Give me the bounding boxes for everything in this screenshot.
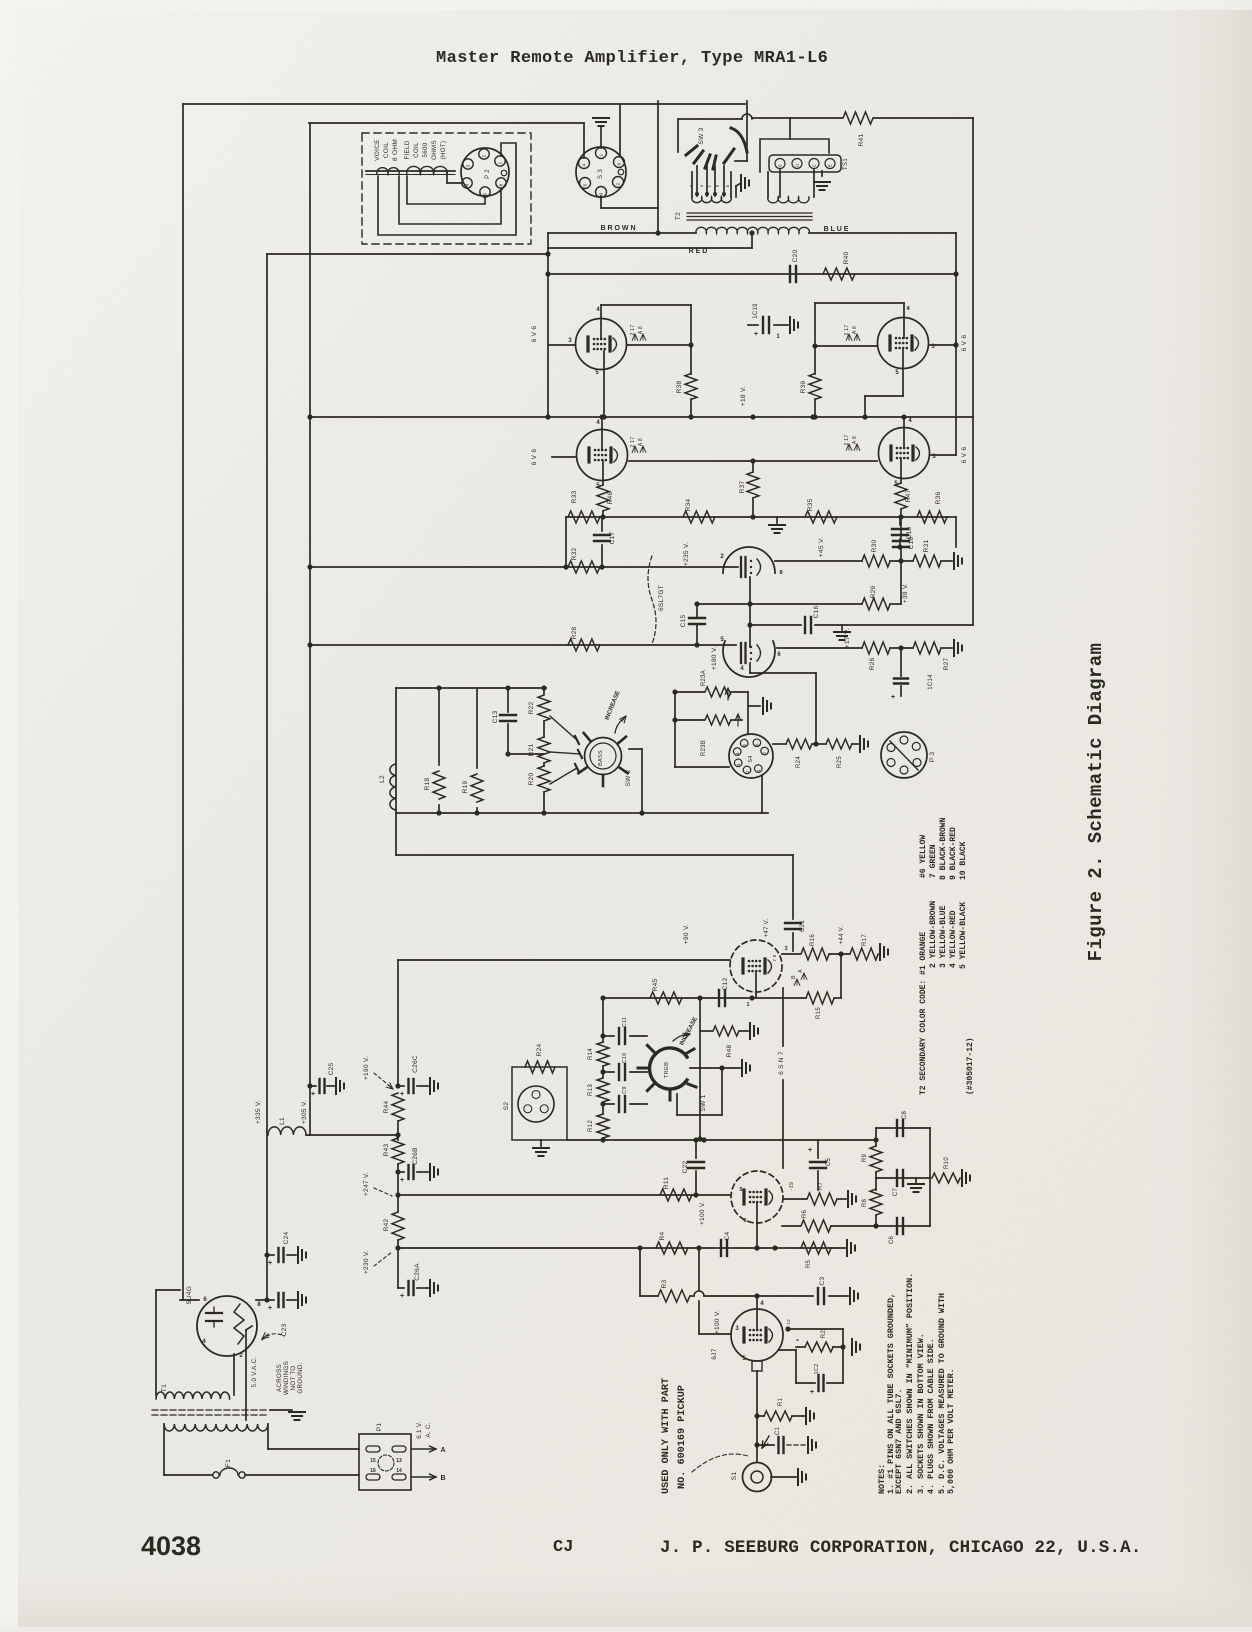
- svg-text:+: +: [400, 1091, 404, 1098]
- svg-text:TS1: TS1: [843, 158, 849, 170]
- svg-text:SW 2: SW 2: [625, 769, 632, 786]
- svg-text:R35: R35: [807, 499, 814, 512]
- svg-text:2: 2: [482, 154, 488, 157]
- svg-text:8: 8: [779, 570, 782, 576]
- svg-text:5: 5: [725, 184, 730, 187]
- svg-text:2: 2: [616, 182, 622, 185]
- svg-text:R13: R13: [588, 1084, 594, 1096]
- svg-text:R9: R9: [862, 1154, 868, 1163]
- svg-text:3 YELLOW-BLUE: 3 YELLOW-BLUE: [939, 905, 948, 968]
- svg-text:+: +: [810, 1389, 814, 1396]
- svg-text:R2: R2: [821, 1330, 827, 1339]
- svg-text:R46: R46: [607, 492, 614, 505]
- svg-text:4: 4: [465, 183, 471, 186]
- svg-text:C18: C18: [908, 537, 915, 550]
- svg-text:R29: R29: [870, 586, 877, 599]
- svg-text:R7: R7: [818, 1182, 824, 1191]
- svg-text:TREB: TREB: [664, 1062, 670, 1079]
- svg-text:R20: R20: [528, 773, 535, 786]
- svg-text:FIELD: FIELD: [404, 140, 411, 159]
- svg-text:3. SOCKETS SHOWN IN BOTTOM VIE: 3. SOCKETS SHOWN IN BOTTOM VIEW.: [916, 1333, 926, 1494]
- svg-text:A 8: A 8: [852, 326, 858, 334]
- svg-text:1C2: 1C2: [814, 1364, 820, 1375]
- svg-text:R39: R39: [800, 381, 807, 394]
- svg-text:C4: C4: [724, 1231, 731, 1240]
- svg-text:+39 V.: +39 V.: [902, 583, 909, 603]
- svg-text:C22: C22: [682, 1161, 689, 1174]
- svg-text:R47: R47: [905, 490, 912, 503]
- svg-text:R32: R32: [571, 548, 578, 561]
- svg-text:+230 V.: +230 V.: [363, 1250, 370, 1274]
- svg-text:1: 1: [746, 1002, 749, 1008]
- svg-text:C1: C1: [775, 1427, 781, 1436]
- svg-text:5 YELLOW-BLACK: 5 YELLOW-BLACK: [959, 902, 968, 969]
- svg-text:7 GREEN: 7 GREEN: [929, 844, 938, 878]
- svg-text:1: 1: [707, 184, 712, 187]
- svg-text:-19: -19: [789, 1182, 795, 1190]
- svg-text:2 YELLOW-BROWN: 2 YELLOW-BROWN: [929, 901, 938, 968]
- svg-text:CJ: CJ: [553, 1538, 573, 1557]
- svg-text:1: 1: [756, 769, 762, 772]
- svg-text:USED ONLY WITH PART: USED ONLY WITH PART: [661, 1378, 672, 1494]
- svg-text:C11: C11: [622, 1017, 628, 1028]
- svg-text:1: 1: [599, 153, 605, 156]
- svg-text:13: 13: [396, 1458, 402, 1464]
- svg-text:3: 3: [736, 763, 742, 766]
- svg-text:4: 4: [735, 752, 741, 755]
- svg-text:R21: R21: [528, 744, 535, 757]
- svg-text:15: 15: [370, 1458, 376, 1464]
- svg-text:A 8: A 8: [852, 436, 858, 444]
- svg-text:A 8: A 8: [638, 438, 644, 446]
- svg-text:8 OHM: 8 OHM: [392, 139, 399, 161]
- svg-text:T1: T1: [161, 1384, 168, 1392]
- svg-text:2. ALL SWITCHES SHOWN IN “MINI: 2. ALL SWITCHES SHOWN IN “MINIMUM” POSIT…: [905, 1273, 915, 1494]
- svg-text:6.1 V.: 6.1 V.: [416, 1421, 423, 1438]
- svg-text:T2: T2: [675, 212, 682, 220]
- svg-text:+18 V.: +18 V.: [740, 386, 747, 406]
- svg-text:B: B: [791, 975, 797, 979]
- svg-text:R18: R18: [424, 778, 431, 791]
- svg-text:5: 5: [742, 744, 748, 747]
- svg-text:+47 V.: +47 V.: [764, 919, 770, 938]
- svg-text:C20: C20: [792, 250, 799, 263]
- svg-text:A: A: [798, 969, 804, 973]
- svg-text:P1: P1: [376, 1423, 383, 1432]
- svg-text:R45: R45: [652, 979, 659, 992]
- svg-text:A. C.: A. C.: [425, 1422, 432, 1437]
- svg-text:R36: R36: [935, 492, 942, 505]
- svg-text:C12: C12: [722, 978, 729, 991]
- svg-text:B L U E: B L U E: [824, 226, 849, 233]
- svg-text:R27: R27: [943, 658, 950, 671]
- svg-text:R23B: R23B: [701, 740, 707, 756]
- svg-text:R25: R25: [837, 756, 843, 768]
- svg-text:+305 V.: +305 V.: [301, 1100, 308, 1124]
- svg-text:P 2: P 2: [485, 169, 491, 179]
- svg-text:SW 1: SW 1: [700, 1094, 707, 1111]
- svg-text:+: +: [268, 1260, 272, 1267]
- svg-text:R11: R11: [663, 1177, 670, 1189]
- svg-text:J. P. SEEBURG CORPORATION, CHI: J. P. SEEBURG CORPORATION, CHICAGO 22, U…: [660, 1538, 1142, 1558]
- svg-text:C3: C3: [819, 1276, 826, 1285]
- svg-text:7 8: 7 8: [772, 954, 777, 961]
- svg-text:C15: C15: [680, 615, 687, 628]
- svg-text:C16: C16: [813, 606, 820, 619]
- svg-text:6: 6: [743, 1218, 746, 1224]
- svg-text:R24: R24: [536, 1044, 543, 1057]
- svg-text:C13: C13: [492, 711, 499, 724]
- svg-text:7: 7: [762, 752, 768, 755]
- svg-text:C26B: C26B: [412, 1147, 419, 1164]
- svg-text:C26A: C26A: [414, 1263, 421, 1281]
- svg-text:+90 V.: +90 V.: [683, 924, 690, 944]
- svg-text:R37: R37: [739, 481, 746, 494]
- svg-text:5600: 5600: [422, 142, 429, 157]
- svg-text:S2: S2: [503, 1102, 510, 1111]
- svg-text:NO. 600169 PICKUP: NO. 600169 PICKUP: [677, 1385, 688, 1489]
- svg-text:R4: R4: [659, 1231, 666, 1240]
- svg-text:#6 YELLOW: #6 YELLOW: [919, 835, 928, 878]
- svg-text:WINDINGS: WINDINGS: [283, 1361, 290, 1395]
- svg-text:4: 4: [699, 184, 704, 187]
- svg-text:R23A: R23A: [701, 670, 707, 686]
- svg-text:R3: R3: [661, 1279, 668, 1288]
- svg-text:R31: R31: [923, 540, 930, 553]
- svg-text:+235 V.: +235 V.: [683, 542, 690, 566]
- svg-text:10 BLACK: 10 BLACK: [959, 841, 968, 880]
- svg-text:R26: R26: [869, 658, 876, 671]
- svg-text:3: 3: [466, 164, 472, 167]
- svg-text:C25: C25: [328, 1063, 335, 1076]
- svg-text:+: +: [808, 1147, 812, 1154]
- svg-text:Figure 2. Schematic Diagram: Figure 2. Schematic Diagram: [1085, 643, 1107, 962]
- svg-text:Master Remote Amplifier, Type: Master Remote Amplifier, Type MRA1-L6: [436, 49, 828, 68]
- svg-text:S1: S1: [731, 1472, 738, 1481]
- svg-text:+: +: [400, 1177, 404, 1184]
- svg-text:S 3: S 3: [598, 169, 604, 179]
- svg-text:6: 6: [755, 743, 761, 746]
- svg-text:NOT TO: NOT TO: [290, 1366, 297, 1391]
- svg-text:R10: R10: [944, 1157, 950, 1169]
- svg-text:14: 14: [396, 1468, 402, 1474]
- svg-text:C10: C10: [622, 1053, 628, 1064]
- svg-text:8: 8: [499, 183, 505, 186]
- svg-text:R43: R43: [383, 1144, 390, 1157]
- svg-text:COIL: COIL: [413, 142, 420, 158]
- svg-text:6: 6: [778, 164, 783, 167]
- svg-text:R16: R16: [810, 934, 816, 946]
- svg-text:F1: F1: [225, 1459, 232, 1467]
- svg-text:R1: R1: [778, 1398, 784, 1407]
- svg-text:E: E: [828, 164, 833, 167]
- svg-text:C5: C5: [826, 1158, 832, 1167]
- svg-text:SW 3: SW 3: [698, 127, 705, 144]
- svg-text:9 BLACK-RED: 9 BLACK-RED: [949, 827, 958, 880]
- svg-text:5: 5: [483, 192, 489, 195]
- svg-text:+: +: [311, 1091, 315, 1098]
- svg-text:+45 V.: +45 V.: [818, 537, 825, 557]
- svg-text:1C19: 1C19: [753, 303, 759, 319]
- svg-text:R33: R33: [571, 491, 578, 504]
- svg-text:5: 5: [583, 183, 589, 186]
- svg-text:S4: S4: [748, 755, 754, 762]
- svg-text:6J7: 6J7: [711, 1348, 718, 1359]
- svg-text:+100 V.: +100 V.: [699, 1201, 706, 1225]
- svg-text:5.0 V.A.C.: 5.0 V.A.C.: [251, 1357, 258, 1388]
- svg-text:5,000 OHM PER VOLT METER.: 5,000 OHM PER VOLT METER.: [946, 1368, 956, 1494]
- svg-text:(#305017-12): (#305017-12): [966, 1037, 975, 1095]
- svg-text:R48: R48: [726, 1045, 733, 1058]
- svg-text:BASS: BASS: [598, 750, 604, 766]
- svg-text:R15: R15: [816, 1007, 822, 1019]
- svg-text:COIL: COIL: [383, 142, 390, 158]
- svg-text:5U4G: 5U4G: [186, 1286, 193, 1304]
- svg-text:4038: 4038: [141, 1531, 201, 1561]
- svg-text:VOICE: VOICE: [374, 139, 381, 161]
- svg-text:C9: C9: [622, 1086, 628, 1094]
- svg-text:+180 V.: +180 V.: [711, 646, 718, 670]
- svg-text:4: 4: [582, 163, 588, 166]
- svg-text:6 V 6: 6 V 6: [961, 335, 968, 352]
- svg-text:T2 SECONDARY COLOR CODE: #1 OR: T2 SECONDARY COLOR CODE: #1 ORANGE: [919, 932, 928, 1095]
- svg-text:8 BLACK-BROWN: 8 BLACK-BROWN: [939, 817, 948, 880]
- svg-text:4. PLUGS SHOWN FROM CABLE SIDE: 4. PLUGS SHOWN FROM CABLE SIDE.: [926, 1338, 936, 1494]
- svg-text:1: 1: [498, 161, 504, 164]
- svg-text:C26C: C26C: [412, 1055, 419, 1073]
- svg-text:+100 V.: +100 V.: [714, 1310, 721, 1334]
- svg-text:11: 11: [795, 163, 800, 168]
- svg-text:1C14: 1C14: [928, 674, 934, 690]
- svg-text:3: 3: [784, 946, 787, 952]
- svg-text:5: 5: [739, 1187, 742, 1193]
- svg-text:(HOT): (HOT): [440, 141, 447, 160]
- svg-text:L1: L1: [279, 1117, 286, 1125]
- svg-text:L2: L2: [379, 775, 386, 783]
- svg-text:6 V 6: 6 V 6: [531, 326, 538, 343]
- svg-text:C17: C17: [609, 532, 616, 545]
- svg-text:C7: C7: [893, 1188, 899, 1197]
- svg-text:+: +: [268, 1305, 272, 1312]
- svg-text:R19: R19: [462, 781, 469, 794]
- svg-text:R28: R28: [571, 627, 578, 640]
- svg-text:R41: R41: [858, 134, 865, 147]
- svg-text:6 S N 7: 6 S N 7: [778, 1051, 785, 1075]
- svg-text:R6: R6: [802, 1210, 808, 1219]
- svg-text:+: +: [400, 1293, 404, 1300]
- svg-text:B: B: [440, 1475, 445, 1482]
- svg-text:R24: R24: [796, 756, 802, 768]
- svg-text:P 3: P 3: [929, 752, 936, 763]
- svg-text:8: 8: [795, 1338, 800, 1341]
- svg-text:R40: R40: [843, 252, 850, 265]
- svg-text:+: +: [754, 331, 758, 338]
- svg-text:B R O W N: B R O W N: [601, 225, 636, 232]
- svg-text:3: 3: [599, 192, 605, 195]
- svg-text:+335 V.: +335 V.: [255, 1100, 262, 1124]
- svg-text:EXCEPT 6SN7 AND 6SL7.: EXCEPT 6SN7 AND 6SL7.: [894, 1388, 904, 1494]
- svg-text:2: 2: [745, 770, 751, 773]
- svg-text:GROUND.: GROUND.: [297, 1362, 304, 1393]
- svg-text:R38: R38: [676, 381, 683, 394]
- svg-text:+247 V.: +247 V.: [363, 1172, 370, 1196]
- svg-text:6 V 6: 6 V 6: [961, 447, 968, 464]
- svg-text:C6: C6: [889, 1236, 895, 1245]
- svg-text:R22: R22: [528, 702, 535, 715]
- svg-text:C21: C21: [800, 920, 806, 932]
- svg-text:R17: R17: [862, 934, 868, 946]
- svg-text:R30: R30: [871, 540, 878, 553]
- svg-text:+44 V.: +44 V.: [839, 926, 845, 945]
- svg-text:C23: C23: [281, 1324, 288, 1337]
- svg-text:R8: R8: [862, 1199, 868, 1208]
- svg-text:+: +: [891, 694, 895, 701]
- svg-text:A: A: [440, 1447, 445, 1454]
- svg-text:R44: R44: [383, 1101, 390, 1114]
- svg-text:R42: R42: [383, 1219, 390, 1232]
- svg-text:3: 3: [715, 184, 720, 187]
- svg-text:6 V 6: 6 V 6: [531, 449, 538, 466]
- svg-text:C: C: [812, 163, 817, 167]
- svg-text:6SL7GT: 6SL7GT: [658, 585, 665, 611]
- svg-text:R34: R34: [685, 499, 692, 512]
- svg-text:A 8: A 8: [638, 326, 644, 334]
- svg-text:16: 16: [370, 1468, 376, 1474]
- svg-text:C8: C8: [902, 1111, 908, 1120]
- svg-text:R E D: R E D: [689, 248, 708, 255]
- svg-text:ACROSS: ACROSS: [276, 1364, 283, 1392]
- svg-text:OHMS: OHMS: [431, 140, 438, 160]
- svg-text:+190 V.: +190 V.: [363, 1056, 370, 1080]
- svg-text:R14: R14: [588, 1048, 594, 1060]
- svg-text:R5: R5: [806, 1260, 812, 1269]
- svg-text:6: 6: [617, 162, 623, 165]
- svg-text:C24: C24: [283, 1232, 290, 1245]
- svg-text:+17 V.: +17 V.: [844, 628, 851, 648]
- svg-text:R12: R12: [588, 1120, 594, 1132]
- svg-text:4 YELLOW-RED: 4 YELLOW-RED: [949, 910, 958, 968]
